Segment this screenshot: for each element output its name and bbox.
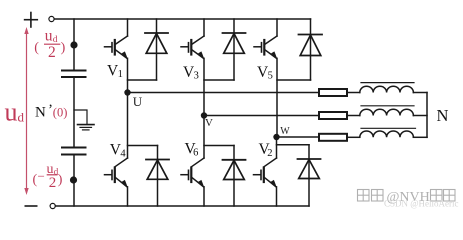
capacitor Cd2 xyxy=(62,148,86,155)
positive terminal circle xyxy=(49,16,54,21)
label V4 xyxy=(110,141,127,159)
wire V5 emitter to diode link xyxy=(277,79,311,81)
svg-text:u: u xyxy=(45,28,53,45)
ground xyxy=(74,110,94,130)
diode VD6 xyxy=(223,146,246,207)
transistor V1 xyxy=(105,19,128,93)
wire phase V output xyxy=(204,115,319,117)
label (-ud/2) xyxy=(33,162,63,191)
wire RW to LW xyxy=(347,136,360,138)
svg-text:): ) xyxy=(58,173,63,188)
node W dot xyxy=(273,134,279,140)
label N' xyxy=(35,102,53,121)
wire V4 collector to diode link xyxy=(128,145,158,147)
svg-text:U: U xyxy=(133,94,143,109)
wire phase W output xyxy=(277,136,320,138)
label V2 xyxy=(259,141,273,159)
svg-text:V: V xyxy=(205,117,213,129)
wire LW to bus N xyxy=(413,136,427,138)
node (-ud/2) dot xyxy=(70,176,77,183)
svg-text:2: 2 xyxy=(48,44,56,61)
diode VD2 xyxy=(298,145,321,206)
svg-text:u: u xyxy=(5,97,18,126)
diode VD5 xyxy=(299,19,323,80)
wire phase U output xyxy=(128,92,320,94)
resistor RU xyxy=(319,89,347,96)
node V dot xyxy=(201,112,207,118)
svg-text:N: N xyxy=(35,105,46,121)
wire DC-link column lower xyxy=(73,155,75,207)
diode VD1 xyxy=(145,19,168,80)
wire V3 emitter to diode link xyxy=(204,79,234,81)
inductor LV xyxy=(360,106,414,116)
wire DC-link column upper xyxy=(73,19,75,71)
wire LU to bus N xyxy=(413,92,427,94)
svg-text:4: 4 xyxy=(120,148,126,159)
svg-text:): ) xyxy=(61,40,66,55)
transistor V6 xyxy=(181,116,204,207)
wire neutral bus xyxy=(426,93,428,138)
svg-text:2: 2 xyxy=(49,175,57,191)
transistor V5 xyxy=(254,19,277,137)
wire V2 collector to diode link xyxy=(277,144,310,146)
label V5 xyxy=(257,64,273,82)
wire bottom DC rail xyxy=(55,205,309,207)
resistor RV xyxy=(319,112,347,119)
wire LV to bus N xyxy=(413,115,427,117)
node (ud/2) dot xyxy=(70,41,77,48)
svg-text:1: 1 xyxy=(118,69,123,80)
svg-text:−: − xyxy=(38,169,45,184)
wire V1 emitter to diode link xyxy=(128,79,157,81)
node U dot xyxy=(124,89,130,95)
diode VD4 xyxy=(146,146,169,207)
svg-text:CSDN @HelloAeric: CSDN @HelloAeric xyxy=(384,199,459,209)
svg-text:3: 3 xyxy=(194,71,199,82)
label (ud/2) xyxy=(34,28,65,62)
svg-text:6: 6 xyxy=(193,147,198,158)
wire top DC rail xyxy=(54,18,310,20)
plus terminal sign xyxy=(25,13,38,28)
inductor LU xyxy=(360,83,414,93)
diode VD3 xyxy=(223,19,246,80)
svg-text:(0): (0) xyxy=(53,105,68,119)
svg-text:W: W xyxy=(280,126,290,137)
watermark zhihu NVH xyxy=(358,190,456,206)
label V1 xyxy=(107,62,123,80)
negative terminal circle xyxy=(50,203,55,208)
capacitor Cd1 xyxy=(62,71,86,78)
label ud xyxy=(5,97,25,126)
transistor V2 xyxy=(254,137,277,206)
transistor V3 xyxy=(181,19,204,116)
wire RU to LU xyxy=(347,92,360,94)
svg-text:(: ( xyxy=(34,40,39,55)
label V6 xyxy=(185,140,199,158)
svg-text:N: N xyxy=(437,106,449,125)
svg-text:5: 5 xyxy=(268,71,273,82)
wire DC-link column middle xyxy=(73,77,75,148)
svg-text:d: d xyxy=(18,110,25,125)
transistor V4 xyxy=(105,93,128,207)
label V3 xyxy=(183,64,199,82)
inductor LW xyxy=(360,128,416,137)
resistor RW xyxy=(319,134,347,141)
svg-text:2: 2 xyxy=(267,148,272,159)
voltage arrow ud xyxy=(24,27,28,195)
wire RV to LV xyxy=(347,115,360,117)
wire V6 collector to diode link xyxy=(204,145,234,147)
minus terminal sign xyxy=(25,205,36,207)
